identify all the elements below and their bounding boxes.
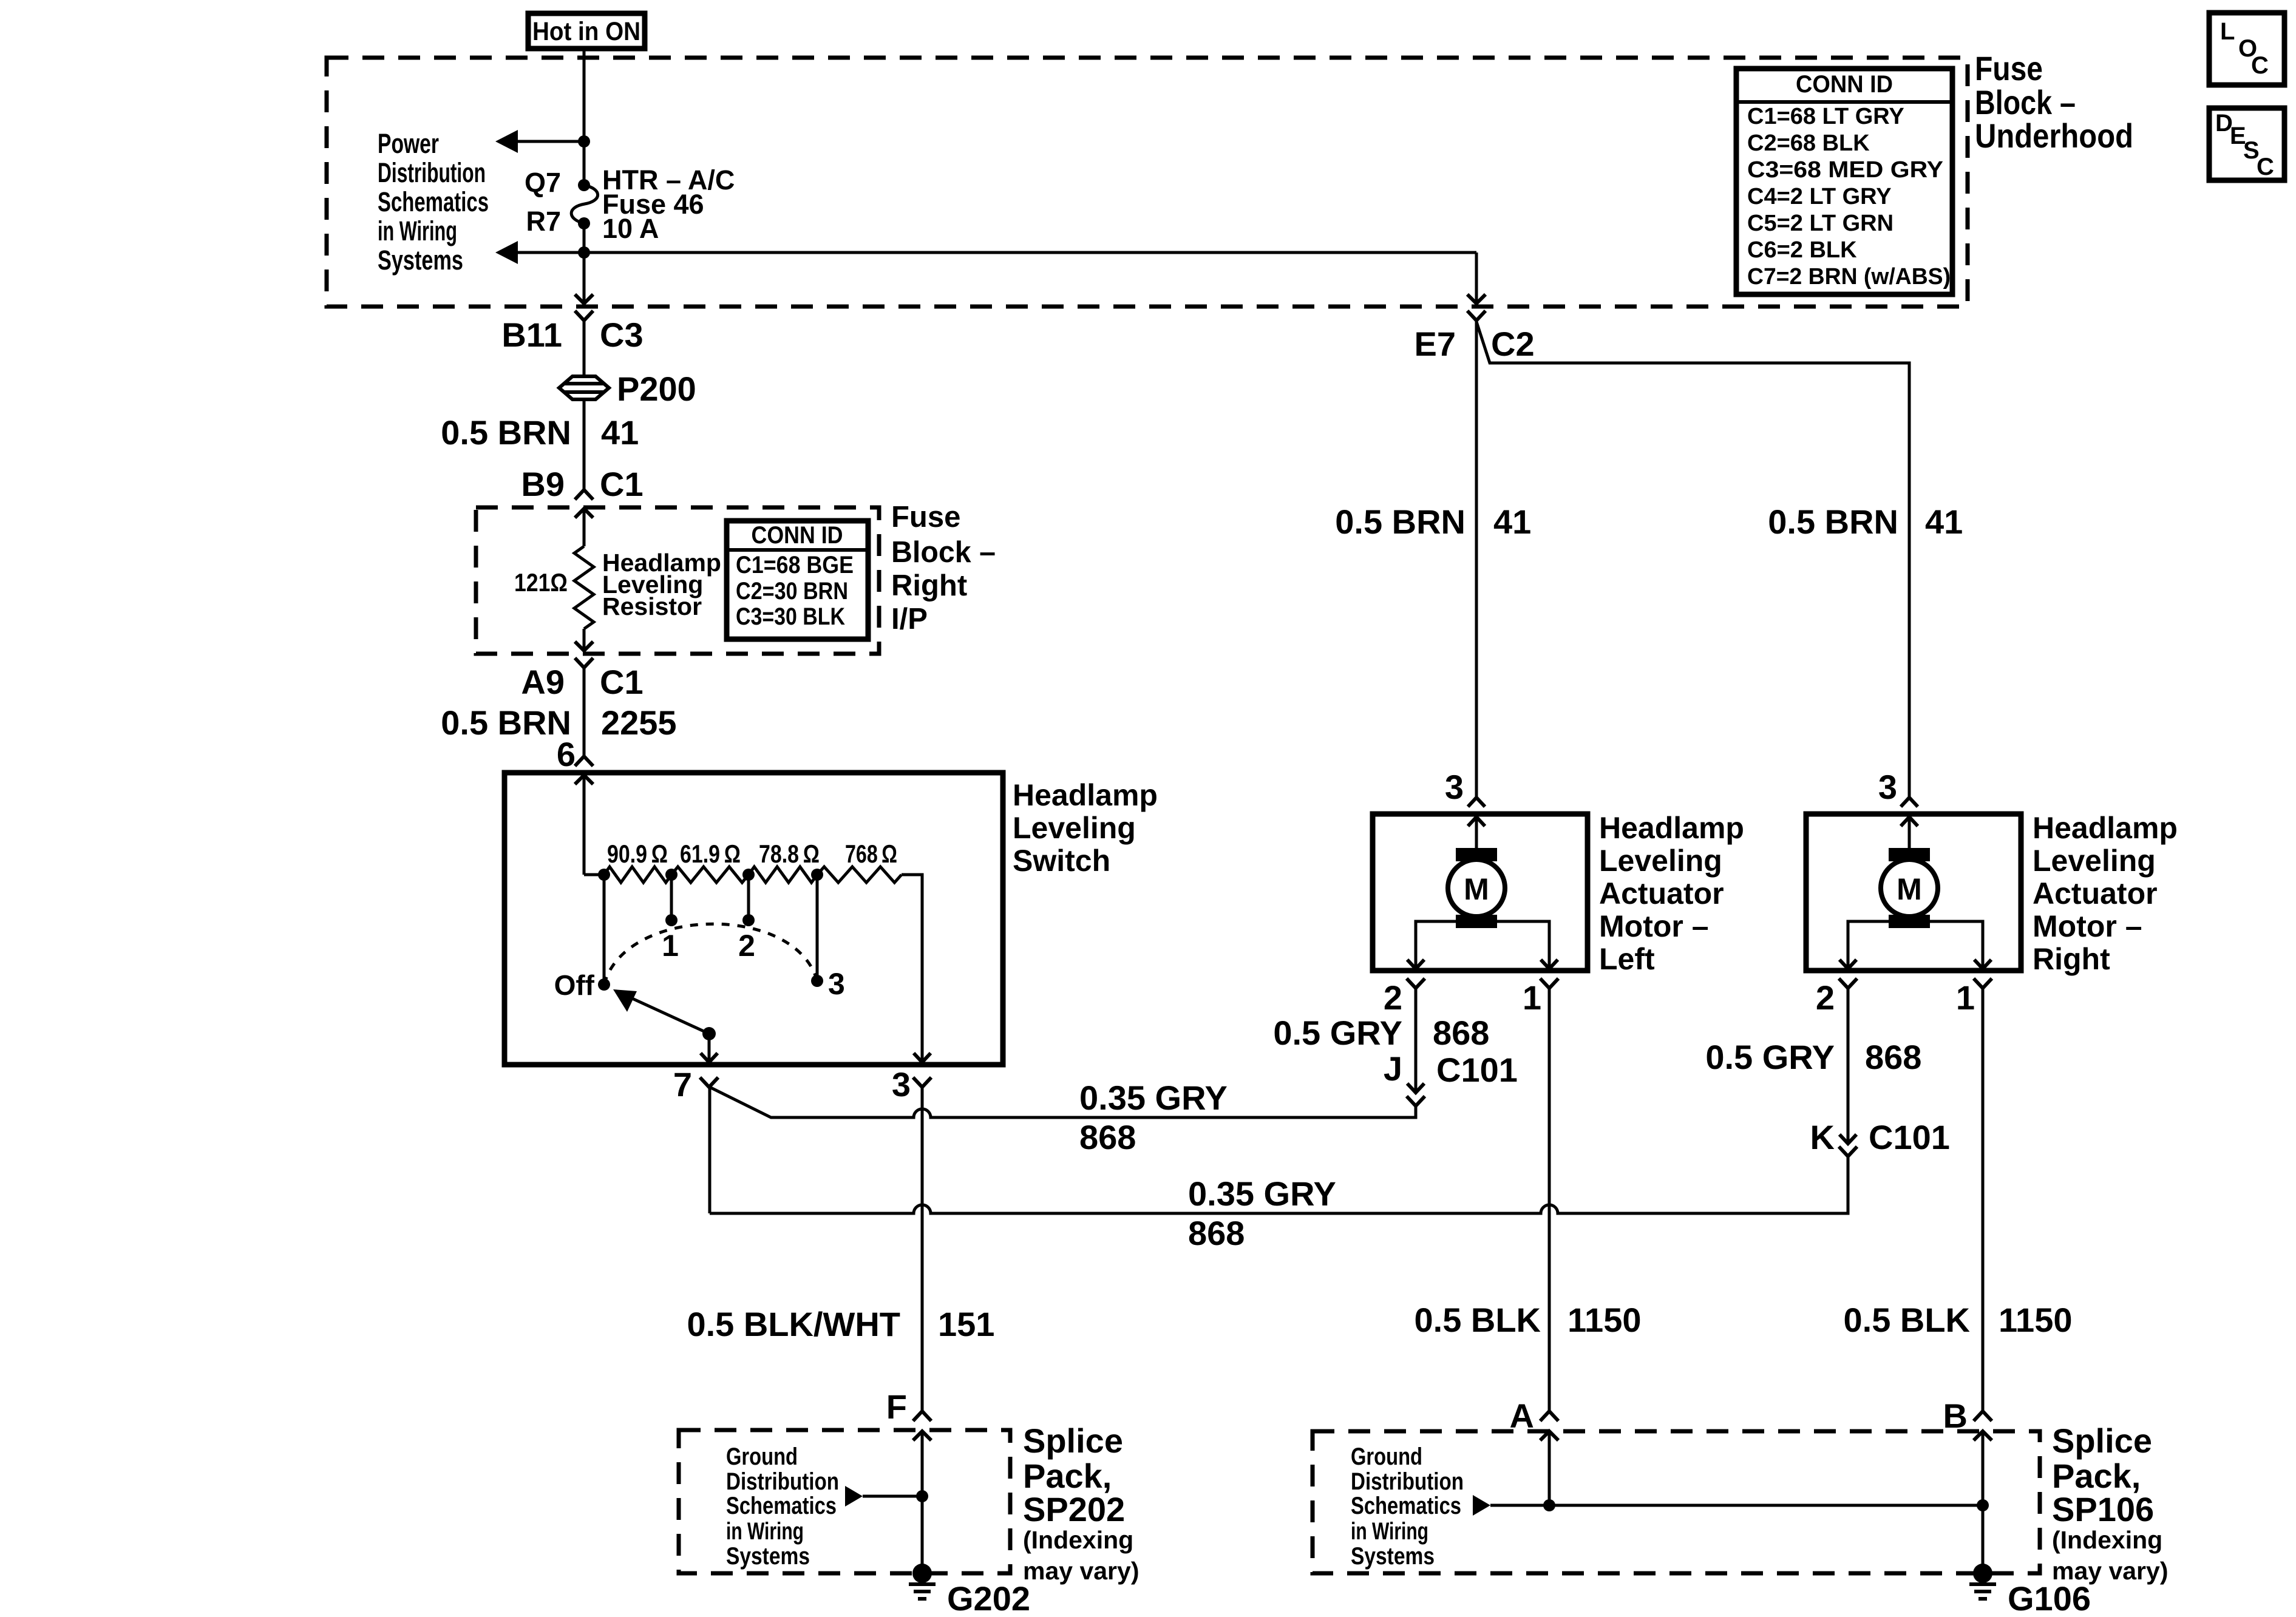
- svg-text:Distribution: Distribution: [726, 1468, 839, 1495]
- resistor 90.9 ohm: [604, 867, 671, 883]
- wire pin7 run to K (0.35 GRY 868 lower): [710, 1156, 1848, 1213]
- svg-text:0.35 GRY: 0.35 GRY: [1188, 1175, 1336, 1213]
- svg-text:90.9 Ω: 90.9 Ω: [607, 839, 668, 868]
- wire resistor to A9 with arrow: [575, 629, 593, 651]
- connector J/C101: [1407, 1083, 1425, 1106]
- headlamp leveling actuator motor right box: [1806, 814, 2021, 971]
- connector at left motor pin 3: [1468, 798, 1485, 826]
- headlamp leveling switch name: [1013, 778, 1158, 878]
- connector F at SP202: [913, 1411, 931, 1440]
- fuse block underhood dashed box: [327, 58, 1968, 307]
- svg-text:1: 1: [1523, 978, 1541, 1017]
- svg-text:C1: C1: [600, 465, 644, 503]
- headlamp leveling actuator motor right name: [2033, 811, 2178, 976]
- CONN ID table (fuse block underhood): [1736, 69, 1952, 294]
- wire switch pin3 down to F: [921, 1087, 924, 1411]
- wire jog to chain start: [584, 873, 604, 876]
- connector B11/C3 at fuse block exit: [575, 294, 593, 320]
- wire from fuse to E7 (horizontal): [584, 251, 1476, 254]
- svg-text:Leveling: Leveling: [1013, 811, 1136, 845]
- wire F down to ground G202: [921, 1431, 924, 1573]
- splice pack SP106 name: [2052, 1422, 2168, 1585]
- connector at right motor pin 1: [1974, 978, 1992, 988]
- headlamp leveling actuator motor left name: [1599, 811, 1744, 976]
- resistor 78.8 ohm: [749, 867, 817, 883]
- svg-text:F: F: [886, 1388, 907, 1426]
- svg-text:Hot in ON: Hot in ON: [532, 17, 640, 46]
- svg-text:3: 3: [828, 967, 845, 1001]
- contact dot 3: [811, 975, 823, 987]
- connector below switch pin 7: [700, 1077, 718, 1087]
- svg-text:SP202: SP202: [1023, 1490, 1125, 1528]
- svg-text:Systems: Systems: [378, 245, 463, 276]
- svg-text:P200: P200: [617, 370, 696, 408]
- svg-text:3: 3: [1445, 768, 1464, 806]
- connector E7/C2 at fuse block exit: [1467, 253, 1486, 320]
- contact stub 3: [816, 875, 819, 981]
- svg-text:C6=2 BLK: C6=2 BLK: [1747, 237, 1857, 263]
- svg-text:Pack,: Pack,: [2052, 1457, 2141, 1495]
- svg-text:Headlamp: Headlamp: [1013, 778, 1158, 812]
- svg-text:(Indexing: (Indexing: [2052, 1526, 2162, 1554]
- svg-text:151: 151: [938, 1305, 994, 1343]
- svg-text:R7: R7: [526, 206, 561, 237]
- motor left output wires with arrows: [1407, 921, 1558, 969]
- svg-text:Splice: Splice: [1023, 1422, 1123, 1460]
- motor M symbol (left): [1448, 817, 1505, 928]
- wire arrow to power distribution (upper): [495, 130, 584, 153]
- svg-text:2: 2: [1384, 978, 1402, 1017]
- svg-text:Off: Off: [554, 969, 595, 1001]
- svg-text:3: 3: [892, 1065, 911, 1103]
- svg-text:0.5 BLK/WHT: 0.5 BLK/WHT: [687, 1305, 900, 1343]
- svg-text:41: 41: [601, 413, 639, 452]
- motor right output wires with arrows: [1839, 921, 1991, 969]
- svg-text:in Wiring: in Wiring: [1351, 1518, 1428, 1545]
- connector A9/C1 below resistor block: [575, 658, 593, 668]
- svg-text:Power: Power: [378, 128, 439, 159]
- connector at right motor pin 2: [1839, 978, 1857, 988]
- splice pack SP202 dashed box: [679, 1430, 1010, 1573]
- svg-text:Headlamp: Headlamp: [2033, 811, 2178, 845]
- wire pin 7 down: [708, 1087, 712, 1213]
- svg-text:10 A: 10 A: [602, 213, 659, 244]
- svg-text:CONN ID: CONN ID: [1796, 71, 1893, 98]
- connector A at SP106: [1540, 1411, 1558, 1440]
- node junction A: [1543, 1499, 1555, 1511]
- svg-text:may vary): may vary): [1023, 1557, 1139, 1585]
- svg-text:C2=30 BRN: C2=30 BRN: [736, 578, 848, 605]
- svg-text:M: M: [1897, 872, 1922, 906]
- svg-text:2: 2: [738, 929, 755, 963]
- wire pivot to pin 7 with arrow: [701, 1034, 718, 1062]
- svg-text:Actuator: Actuator: [1599, 876, 1724, 910]
- svg-text:in Wiring: in Wiring: [726, 1518, 804, 1545]
- svg-text:868: 868: [1079, 1118, 1136, 1156]
- node junction below fuse: [578, 246, 590, 259]
- wire Off branch vertical: [603, 875, 606, 985]
- svg-text:Fuse: Fuse: [1975, 49, 2043, 87]
- svg-text:1150: 1150: [1999, 1301, 2073, 1339]
- svg-text:I/P: I/P: [891, 603, 928, 636]
- svg-text:Pack,: Pack,: [1023, 1457, 1112, 1495]
- svg-text:2: 2: [1816, 978, 1835, 1017]
- svg-text:L: L: [2220, 18, 2235, 45]
- headlamp leveling switch box: [504, 773, 1003, 1065]
- svg-text:C3=68 MED GRY: C3=68 MED GRY: [1747, 157, 1943, 183]
- ground G202: [909, 1564, 936, 1599]
- svg-text:Schematics: Schematics: [378, 186, 489, 217]
- svg-text:Systems: Systems: [726, 1543, 810, 1570]
- fuse block right IP dashed box: [476, 507, 879, 654]
- svg-text:Block –: Block –: [1975, 83, 2076, 121]
- splice pack SP106 dashed box: [1313, 1431, 2040, 1573]
- svg-text:C: C: [2257, 154, 2274, 180]
- svg-text:Actuator: Actuator: [2033, 876, 2158, 910]
- ground G106: [1969, 1564, 1996, 1599]
- svg-text:C2: C2: [1491, 325, 1535, 363]
- resistor 61.9 ohm: [671, 867, 749, 883]
- svg-text:SP106: SP106: [2052, 1490, 2154, 1528]
- ground ref arrow (SP106): [1473, 1495, 1983, 1516]
- svg-text:0.5 BLK: 0.5 BLK: [1415, 1301, 1541, 1339]
- svg-text:M: M: [1464, 872, 1489, 906]
- wire right pin1 down to B: [1982, 988, 1985, 1411]
- svg-text:768 Ω: 768 Ω: [845, 839, 897, 868]
- svg-text:868: 868: [1188, 1214, 1245, 1252]
- svg-text:C3=30 BLK: C3=30 BLK: [736, 603, 845, 630]
- resistor 121 ohm zigzag: [574, 546, 594, 629]
- contact dot 1: [665, 914, 678, 926]
- svg-text:Systems: Systems: [1351, 1543, 1435, 1570]
- svg-text:A9: A9: [521, 663, 565, 701]
- svg-text:E7: E7: [1415, 325, 1456, 363]
- svg-text:1: 1: [662, 929, 679, 963]
- svg-text:C5=2 LT GRN: C5=2 LT GRN: [1747, 211, 1894, 236]
- svg-text:61.9 Ω: 61.9 Ω: [680, 839, 741, 868]
- svg-text:Leveling: Leveling: [2033, 844, 2156, 878]
- svg-text:Schematics: Schematics: [1351, 1493, 1461, 1519]
- fuse block underhood name: [1975, 49, 2133, 155]
- svg-text:7: 7: [673, 1065, 692, 1103]
- svg-text:C1=68 LT GRY: C1=68 LT GRY: [1747, 104, 1904, 129]
- node junction B: [1977, 1499, 1989, 1511]
- svg-text:3: 3: [1878, 768, 1897, 806]
- wire E7 down to left motor pin 3: [1475, 320, 1478, 798]
- headlamp leveling resistor name: [602, 549, 721, 620]
- wire right pin2 down to K: [1847, 988, 1850, 1144]
- svg-text:K: K: [1810, 1118, 1835, 1156]
- svg-text:Distribution: Distribution: [378, 157, 486, 188]
- svg-text:Headlamp: Headlamp: [1599, 811, 1744, 845]
- splice P200 symbol: [559, 376, 609, 399]
- contact stub 2: [747, 875, 750, 920]
- svg-text:(Indexing: (Indexing: [1023, 1526, 1133, 1554]
- ground ref arrow (SP202): [845, 1486, 922, 1507]
- svg-text:0.5 GRY: 0.5 GRY: [1273, 1014, 1402, 1052]
- svg-text:C1=68 BGE: C1=68 BGE: [736, 552, 854, 578]
- svg-text:B9: B9: [521, 465, 565, 503]
- node chain start: [598, 869, 610, 881]
- connector below switch pin 3: [913, 1077, 931, 1087]
- node tap 1: [665, 869, 678, 881]
- wire A9 to switch pin 6: [583, 668, 586, 758]
- svg-text:C101: C101: [1436, 1051, 1518, 1089]
- svg-text:0.5 BRN: 0.5 BRN: [441, 703, 571, 742]
- svg-text:868: 868: [1433, 1014, 1489, 1052]
- svg-text:Underhood: Underhood: [1975, 117, 2133, 155]
- connector at switch pin 6: [575, 756, 593, 784]
- connector at left motor pin 1: [1540, 978, 1558, 988]
- svg-text:Splice: Splice: [2052, 1422, 2152, 1460]
- CONN ID table (fuse block right IP): [727, 521, 868, 639]
- wire from Hot in ON down to fuse: [583, 49, 586, 185]
- headlamp leveling actuator motor left box: [1373, 814, 1588, 971]
- motor M symbol (right): [1881, 817, 1938, 928]
- fuse F46 HTR A/C symbol: [571, 179, 598, 229]
- contact dot Off: [598, 978, 610, 991]
- svg-text:121Ω: 121Ω: [514, 568, 568, 597]
- svg-text:1: 1: [1956, 978, 1975, 1017]
- svg-text:6: 6: [557, 735, 576, 773]
- svg-text:Ground: Ground: [1351, 1443, 1422, 1470]
- node junction SP202: [916, 1490, 928, 1502]
- wire P200 to B9: [583, 399, 586, 490]
- svg-text:G106: G106: [2008, 1579, 2091, 1617]
- svg-text:0.5 BLK: 0.5 BLK: [1844, 1301, 1971, 1339]
- svg-text:Schematics: Schematics: [726, 1493, 837, 1519]
- svg-text:G202: G202: [947, 1579, 1030, 1617]
- svg-text:Q7: Q7: [525, 167, 561, 198]
- svg-text:Fuse: Fuse: [891, 501, 960, 534]
- node tap 2: [742, 869, 755, 881]
- LOC tag box: [2209, 13, 2284, 85]
- wire arrow to power distribution (lower): [495, 241, 584, 264]
- svg-text:0.5 BRN: 0.5 BRN: [1768, 503, 1898, 541]
- svg-text:C2=68 BLK: C2=68 BLK: [1747, 131, 1870, 156]
- svg-text:B11: B11: [501, 316, 562, 354]
- wire left pin2 down to J: [1415, 988, 1418, 1093]
- svg-text:0.5 BRN: 0.5 BRN: [1335, 503, 1466, 541]
- svg-text:Right: Right: [891, 569, 967, 602]
- ground distribution note (SP202): [726, 1443, 839, 1570]
- svg-text:0.5 GRY: 0.5 GRY: [1705, 1038, 1835, 1076]
- svg-text:Motor –: Motor –: [1599, 909, 1709, 943]
- wire chain end to pin 3 drop: [902, 875, 922, 1062]
- svg-text:Distribution: Distribution: [1351, 1468, 1464, 1495]
- svg-text:78.8 Ω: 78.8 Ω: [759, 839, 820, 868]
- svg-text:Leveling: Leveling: [1599, 844, 1722, 878]
- svg-text:C101: C101: [1869, 1118, 1950, 1156]
- svg-text:C4=2 LT GRY: C4=2 LT GRY: [1747, 184, 1892, 209]
- svg-text:Left: Left: [1599, 942, 1655, 976]
- wire fuse output down to B11: [583, 253, 586, 303]
- svg-text:C3: C3: [600, 316, 644, 354]
- Power Distribution Schematics note text: [378, 128, 489, 276]
- svg-text:2255: 2255: [601, 703, 677, 742]
- connector at left motor pin 2: [1407, 978, 1425, 988]
- fuse value label HTR - A/C Fuse 46 10 A: [602, 164, 735, 244]
- svg-text:Motor –: Motor –: [2033, 909, 2142, 943]
- headlamp leveling resistor wire top: [583, 509, 586, 546]
- svg-text:0.35 GRY: 0.35 GRY: [1079, 1079, 1228, 1117]
- rotor arm with arrow: [613, 989, 709, 1034]
- ground distribution note (SP106): [1351, 1443, 1464, 1570]
- svg-text:Ground: Ground: [726, 1443, 798, 1470]
- svg-text:Right: Right: [2033, 942, 2110, 976]
- Hot in ON tag box: [528, 13, 645, 49]
- node tap 3: [811, 869, 823, 881]
- connector B9/C1 into fuse block right IP: [575, 490, 593, 518]
- wire A down to splice: [1548, 1432, 1551, 1505]
- fuse block right IP name: [891, 501, 996, 636]
- rotor pivot dot: [702, 1027, 716, 1040]
- connector at right motor pin 3: [1901, 798, 1918, 826]
- wire B11 to P200: [583, 320, 586, 375]
- DESC tag box: [2209, 108, 2284, 180]
- svg-text:41: 41: [1493, 503, 1531, 541]
- svg-text:1150: 1150: [1567, 1301, 1642, 1339]
- svg-text:C: C: [2251, 52, 2269, 79]
- svg-text:in Wiring: in Wiring: [378, 215, 457, 246]
- wire J down and left to pin 7 (0.35 GRY 868): [710, 1087, 1416, 1117]
- resistor 768 ohm: [817, 867, 902, 883]
- wire B down to ground G106: [1982, 1432, 1985, 1573]
- dashed selector arc: [604, 924, 817, 985]
- wire left pin1 down to A: [1548, 988, 1551, 1411]
- svg-text:0.5 BRN: 0.5 BRN: [441, 413, 571, 452]
- wire branch E7 to right motor (diagonal + horizontal + down): [1476, 322, 1909, 798]
- splice pack SP202 name: [1023, 1422, 1139, 1585]
- svg-text:Block –: Block –: [891, 536, 996, 569]
- svg-text:Switch: Switch: [1013, 844, 1110, 878]
- svg-text:41: 41: [1925, 503, 1963, 541]
- contact dot 2: [742, 914, 755, 926]
- svg-text:C1: C1: [600, 663, 644, 701]
- svg-text:C7=2 BRN (w/ABS): C7=2 BRN (w/ABS): [1747, 264, 1951, 290]
- wire switch pin3 arrow to box edge: [914, 1053, 931, 1062]
- svg-text:J: J: [1384, 1049, 1402, 1088]
- connector K/C101: [1839, 1134, 1857, 1156]
- svg-text:868: 868: [1865, 1038, 1921, 1076]
- wire pin6 down to resistor chain: [583, 775, 586, 875]
- svg-text:Resistor: Resistor: [602, 592, 702, 620]
- wire below fuse: [583, 223, 586, 253]
- svg-text:CONN ID: CONN ID: [752, 522, 843, 549]
- contact stub 1: [670, 875, 673, 920]
- connector B at SP106: [1974, 1411, 1992, 1440]
- node junction above fuse: [578, 135, 590, 147]
